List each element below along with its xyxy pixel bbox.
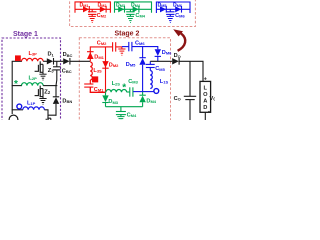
wire (phase 3 top) — [12, 60, 22, 62]
capacitor CM2 plates — [113, 42, 116, 51]
multiplier cell module 2 (green) outline — [115, 2, 152, 13]
capacitor CM2 (top red) — [88, 9, 96, 16]
polarity marker (blue circle, L1S) — [154, 89, 159, 94]
capacitor CM1 — [84, 84, 93, 87]
wire (L3P to D1) — [43, 60, 47, 62]
ground (Z2 source) — [39, 99, 46, 105]
svg-text:DM1: DM1 — [94, 54, 104, 60]
wire (Do to output corner) — [179, 61, 203, 81]
wire (CM2 to ground node) — [116, 46, 122, 48]
ground (blue cell) — [167, 16, 174, 22]
diode Dbn — [53, 97, 59, 104]
wire (output rail) — [150, 60, 172, 62]
svg-text:DM3: DM3 — [108, 99, 118, 105]
transistor Z2 — [35, 86, 43, 99]
svg-text:DM4: DM4 — [146, 98, 156, 104]
diode DM4 (top green) — [133, 6, 139, 13]
ground (CM4, cut off) — [117, 117, 124, 121]
diode DM3 (top green) — [118, 6, 124, 13]
multiplier cell module 3 (blue) outline — [156, 2, 190, 13]
wire (phase 2 to bus) — [43, 85, 57, 87]
svg-text:VO: VO — [209, 96, 215, 102]
svg-text:*: * — [14, 79, 18, 90]
svg-text:A: A — [203, 99, 207, 105]
red cell right branch wire — [105, 47, 107, 92]
svg-text:CM2: CM2 — [97, 13, 107, 19]
diode DM4 (green cell) — [139, 95, 145, 107]
capacitor CM6 plates (stage 2) — [129, 42, 132, 51]
inductor L3P — [22, 58, 44, 61]
wire (D1 to Dbc) — [54, 60, 64, 62]
load box — [200, 81, 211, 112]
svg-text:CM2: CM2 — [97, 41, 107, 47]
wire (phase 2) — [12, 85, 22, 87]
wire (CM6 to DM6 corner) — [132, 47, 158, 50]
capacitor CM6 (top blue) — [166, 9, 174, 16]
red cell left branch wire — [90, 47, 105, 61]
svg-text:DM2: DM2 — [109, 63, 119, 69]
wire (phase 1) — [12, 109, 23, 111]
ground (red cell) — [89, 16, 96, 22]
diode DM5 (blue cell) — [139, 58, 145, 65]
wire (CM5 to L1S) — [149, 68, 151, 71]
svg-text:DBN: DBN — [62, 99, 72, 105]
wire (load bottom) — [204, 112, 206, 120]
svg-text:D1: D1 — [48, 52, 55, 58]
svg-text:-: - — [208, 109, 210, 115]
diode DM5 (top blue) — [160, 6, 166, 13]
svg-text:CM4: CM4 — [127, 113, 137, 119]
diode DM3 (green cell) — [102, 95, 108, 106]
ground (Z3 source) — [39, 74, 46, 80]
polarity marker (blue circle) — [17, 104, 22, 109]
svg-text:DM6: DM6 — [173, 3, 182, 9]
capacitor CM5 — [146, 64, 155, 67]
wire (bus vertical) — [56, 61, 58, 66]
svg-text:CO: CO — [174, 96, 181, 102]
wire (top wire to CM2) — [106, 46, 113, 48]
svg-text:O: O — [203, 92, 208, 98]
wire (ground node to CM6) — [122, 46, 129, 48]
svg-text:D: D — [203, 105, 207, 111]
ground (stage 2 mid, red) — [118, 47, 125, 55]
transistor Z1 (cut off) — [46, 115, 51, 120]
wire (DM5 to blue bottom wire) — [142, 65, 144, 92]
red cell bottom wire — [90, 87, 105, 92]
diode D1 — [47, 58, 54, 65]
wire (red cell bus) — [75, 8, 110, 10]
polarity marker (red square) — [15, 55, 21, 61]
source Vin (cut off) — [9, 115, 18, 124]
diode DM2 (red cell) — [102, 61, 108, 68]
Stage 1 dashed box — [2, 38, 61, 124]
Stage 2 dashed box — [79, 38, 170, 124]
inductor L2S — [106, 90, 127, 93]
svg-text:L1P: L1P — [27, 101, 36, 107]
wire (blue junction to DM4) — [142, 92, 144, 96]
diode DM1 (red cell) — [87, 52, 94, 59]
wire (input rail left) — [11, 61, 13, 114]
svg-text:CM6: CM6 — [175, 13, 185, 19]
wire (CM3 to blue junction) — [133, 91, 143, 93]
svg-text:CM3: CM3 — [128, 79, 138, 85]
wire (DM5 branch vertical) — [142, 47, 144, 58]
wire (L2S to CM3) — [127, 91, 130, 93]
diode DM6 (top blue) — [175, 6, 181, 13]
svg-text:DM1: DM1 — [79, 3, 88, 9]
extension-cells dashed enclosure — [70, 0, 196, 27]
svg-text:DBC: DBC — [63, 52, 73, 58]
diode Do — [172, 58, 179, 65]
svg-text:L: L — [204, 86, 208, 92]
svg-text:Stage 1: Stage 1 — [13, 31, 38, 38]
diode DM1 (top red) — [83, 6, 89, 13]
inductor L1S — [150, 71, 152, 89]
wire (bus bottom) — [55, 104, 57, 116]
wire (phase 1 jog) — [44, 110, 56, 115]
polarity marker (red square, L3S) — [92, 76, 98, 82]
svg-text:CM6: CM6 — [135, 40, 145, 46]
capacitor CM3 plates — [130, 87, 133, 96]
wire (CM5 branch) — [149, 61, 151, 64]
svg-text:DM5: DM5 — [157, 3, 166, 9]
capacitor CM4 (top green) — [126, 9, 134, 16]
svg-text:CM4: CM4 — [135, 13, 145, 19]
capacitor CM4 (green cell) — [116, 107, 126, 117]
wire (blue cell bus) — [156, 8, 190, 10]
inductor L1P — [23, 107, 45, 110]
svg-text:CBC: CBC — [62, 68, 72, 74]
svg-text:L3S: L3S — [93, 68, 102, 74]
svg-text:Z2: Z2 — [44, 90, 51, 96]
wire (green cell bus) — [115, 8, 152, 10]
wire (bus middle) — [55, 70, 58, 97]
wire (L1S bottom to DM5 branch) — [142, 91, 154, 93]
label LOAD — [203, 86, 208, 112]
svg-text:Z3: Z3 — [48, 68, 55, 74]
diode DM2 (top red) — [100, 6, 106, 13]
svg-text:DO: DO — [174, 53, 181, 59]
svg-text:DM6: DM6 — [162, 50, 172, 56]
svg-text:DM2: DM2 — [97, 3, 106, 9]
svg-text:DM3: DM3 — [116, 3, 125, 9]
svg-text:DM5: DM5 — [126, 62, 136, 68]
capacitor Cbc — [53, 67, 61, 70]
annotation arrow (insert cells) — [173, 29, 185, 51]
svg-text:Stage 2: Stage 2 — [115, 31, 140, 38]
diode DM6 (blue cell) — [155, 49, 161, 61]
svg-text:*: * — [122, 83, 126, 94]
svg-text:CM5: CM5 — [155, 66, 165, 72]
svg-text:L2S: L2S — [112, 81, 121, 87]
green cell bottom wire — [106, 106, 143, 108]
wire (Dbc to red cell) — [70, 60, 90, 62]
svg-text:DM4: DM4 — [131, 3, 141, 9]
ground (green cell) — [127, 16, 134, 22]
inductor L2P — [22, 83, 44, 86]
svg-text:L2P: L2P — [29, 76, 38, 82]
wire (Co branch top) — [189, 61, 191, 96]
diode Dbc — [63, 58, 70, 65]
wire (red box corner to DM3) — [105, 92, 107, 95]
capacitor Co — [184, 96, 196, 99]
svg-text:L3P: L3P — [29, 51, 38, 57]
wire (Co branch bottom) — [189, 100, 191, 120]
multiplier cell module 1 (red) outline — [75, 2, 110, 13]
inductor L3S — [90, 62, 92, 80]
svg-text:L1S: L1S — [160, 79, 169, 85]
transistor Z3 — [35, 61, 43, 74]
wire (L3S to CM1) — [89, 80, 91, 84]
